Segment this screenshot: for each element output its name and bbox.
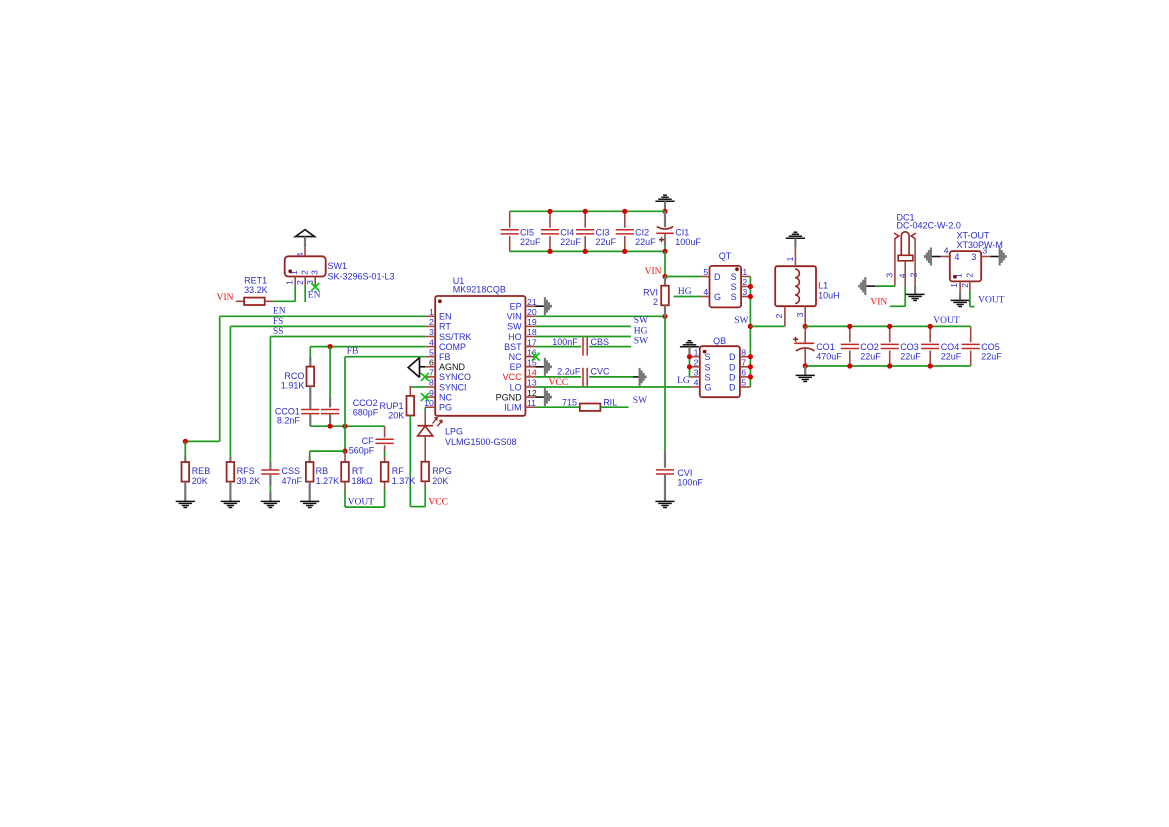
svg-text:CO2: CO2 <box>860 342 879 352</box>
svg-text:D: D <box>729 383 736 393</box>
wire VOUT top rail <box>805 325 971 327</box>
svg-text:RET1: RET1 <box>244 276 267 286</box>
svg-text:XT-OUT: XT-OUT <box>957 231 991 241</box>
net label VCC pin14 <box>549 378 569 388</box>
svg-text:3: 3 <box>971 252 976 262</box>
svg-text:EN: EN <box>439 312 452 322</box>
label VLMG1500-GS08 <box>445 437 517 447</box>
junction VIN node <box>662 274 667 279</box>
svg-text:39.2K: 39.2K <box>237 476 261 486</box>
svg-text:QB: QB <box>713 336 726 346</box>
label RB <box>316 466 340 486</box>
svg-text:4: 4 <box>295 252 305 257</box>
svg-text:2: 2 <box>429 317 434 327</box>
wire VOUT bottom rail <box>805 365 971 367</box>
svg-text:22uF: 22uF <box>635 237 656 247</box>
svg-text:SS/TRK: SS/TRK <box>439 332 472 342</box>
no-connect X pin16 <box>532 353 540 361</box>
svg-text:2: 2 <box>295 280 305 285</box>
svg-text:9: 9 <box>429 388 434 398</box>
label 680pF <box>353 408 379 418</box>
svg-text:17: 17 <box>527 337 537 347</box>
wire SW1 pin2 stub <box>304 286 306 302</box>
net label SW node <box>734 316 748 326</box>
svg-text:4: 4 <box>429 337 434 347</box>
svg-text:2: 2 <box>774 313 784 318</box>
svg-text:3: 3 <box>884 273 894 278</box>
svg-text:D: D <box>714 272 721 282</box>
svg-text:3: 3 <box>305 280 315 285</box>
resistor REB <box>182 462 190 501</box>
label 715 <box>562 398 577 408</box>
resistor RIL <box>580 404 601 411</box>
svg-text:2: 2 <box>965 273 975 278</box>
net label LG <box>677 376 690 386</box>
wire XT pin2 VOUT <box>970 291 975 306</box>
svg-text:NC: NC <box>509 352 522 362</box>
svg-text:22uF: 22uF <box>981 352 1002 362</box>
label RF <box>392 466 416 486</box>
svg-text:7: 7 <box>741 358 746 368</box>
svg-text:22uF: 22uF <box>941 352 962 362</box>
IC U1 MK9218CQB <box>424 296 537 416</box>
wire CVI bottom <box>664 474 666 501</box>
junction CI3 bottom <box>583 249 588 254</box>
net label VCC bottom <box>428 497 448 507</box>
wire XT pin4 to gnd arrow <box>932 256 941 258</box>
label RFS <box>237 466 261 486</box>
svg-text:4: 4 <box>898 273 908 278</box>
wire VCC bottom joint <box>410 491 425 507</box>
junction SW node <box>748 324 753 329</box>
junction QB pin7 <box>748 364 753 369</box>
svg-text:4: 4 <box>703 287 708 297</box>
svg-text:CVC: CVC <box>591 367 611 377</box>
label CBS <box>591 337 610 347</box>
svg-text:CO4: CO4 <box>941 342 960 352</box>
svg-text:S: S <box>705 372 711 382</box>
label CI3 <box>596 227 617 247</box>
ground arrow DC1 pin3 <box>859 277 865 295</box>
no-connect X pin9 <box>421 393 429 401</box>
capacitor CCO2 <box>321 410 339 427</box>
svg-text:SW1: SW1 <box>328 261 348 271</box>
capacitor CO3 <box>881 326 899 366</box>
label RIL <box>603 398 617 408</box>
label 10uH <box>818 290 840 300</box>
net label SW pin19 <box>634 316 648 326</box>
wire DC1 pin4 VIN <box>890 286 905 306</box>
svg-text:715: 715 <box>562 398 577 408</box>
svg-text:MK9218CQB: MK9218CQB <box>453 285 506 295</box>
label QT <box>719 251 732 261</box>
wire LO pin13 to QB <box>536 386 691 388</box>
label CO1 <box>816 342 842 362</box>
net label SS <box>273 327 284 337</box>
svg-text:S: S <box>705 362 711 372</box>
wire FB net <box>345 357 425 451</box>
wire HO pin18 <box>536 336 632 338</box>
svg-text:S: S <box>731 282 737 292</box>
net label EN at SW1 pin2 <box>308 290 321 300</box>
svg-text:RB: RB <box>316 466 329 476</box>
label CSS <box>282 466 303 486</box>
wire DC1 pin3 to gnd arrow <box>866 285 895 287</box>
junction cap bank gnd <box>662 209 667 214</box>
svg-text:SW: SW <box>507 322 522 332</box>
svg-text:15: 15 <box>527 358 537 368</box>
LED LPG <box>417 412 442 462</box>
resistor RUP1 <box>407 386 415 507</box>
label CVI <box>677 468 703 488</box>
capacitor CI4 <box>541 211 559 251</box>
label 20K value RPG <box>432 476 448 486</box>
svg-text:G: G <box>714 292 721 302</box>
capacitor CVC <box>583 368 587 386</box>
wire VCC pin14 right <box>589 376 639 378</box>
svg-text:VIN: VIN <box>217 293 234 303</box>
svg-text:SK-3296S-01-L3: SK-3296S-01-L3 <box>328 272 395 282</box>
svg-text:COMP: COMP <box>439 342 466 352</box>
svg-text:FS: FS <box>273 317 284 327</box>
label RT <box>352 466 374 486</box>
svg-text:CI2: CI2 <box>635 227 649 237</box>
svg-text:3: 3 <box>795 312 805 317</box>
capacitor CI3 <box>576 211 594 251</box>
resistor RCO <box>307 357 315 410</box>
label LPG <box>445 427 463 437</box>
svg-text:560pF: 560pF <box>349 445 375 455</box>
svg-text:470uF: 470uF <box>816 352 842 362</box>
net label VOUT XT <box>978 296 1005 306</box>
label U1 <box>453 276 465 286</box>
svg-text:21: 21 <box>527 297 537 307</box>
label XT30PW-M <box>957 240 1003 250</box>
svg-text:14: 14 <box>527 368 537 378</box>
svg-text:VIN: VIN <box>507 312 522 322</box>
svg-text:VOUT: VOUT <box>978 296 1005 306</box>
svg-text:NC: NC <box>439 392 452 402</box>
junction CCO2 top <box>328 344 333 349</box>
svg-text:FB: FB <box>347 346 359 356</box>
wire CO1 ground stub <box>804 366 806 375</box>
svg-text:REB: REB <box>192 466 211 476</box>
wire XT pin3 to gnd arrow <box>990 256 998 258</box>
svg-text:AGND: AGND <box>439 362 466 372</box>
capacitor CF <box>376 439 394 443</box>
wire comp bottom node <box>310 414 384 427</box>
svg-text:5: 5 <box>429 347 434 357</box>
junction CO4 top <box>928 324 933 329</box>
svg-text:SW: SW <box>634 336 648 346</box>
wire EN net <box>185 316 425 441</box>
junction CI4 top <box>547 209 552 214</box>
svg-text:18: 18 <box>527 327 537 337</box>
svg-text:19: 19 <box>527 317 537 327</box>
connector XT-OUT <box>941 245 991 291</box>
svg-text:22uF: 22uF <box>900 352 921 362</box>
junction CO2 bottom <box>847 363 852 368</box>
net label VIN DC1 <box>870 297 887 307</box>
svg-text:5: 5 <box>703 267 708 277</box>
label CI1 <box>675 227 701 247</box>
junction CO3 top <box>887 324 892 329</box>
svg-text:CI4: CI4 <box>560 227 574 237</box>
svg-text:EN: EN <box>308 290 321 300</box>
ground below RB <box>300 501 319 507</box>
svg-text:20: 20 <box>527 307 537 317</box>
svg-text:3: 3 <box>694 368 699 378</box>
svg-text:3: 3 <box>310 270 320 275</box>
svg-text:47nF: 47nF <box>282 476 303 486</box>
svg-text:RT: RT <box>439 322 451 332</box>
capacitor CVI <box>656 470 674 474</box>
wire QT source vertical <box>749 277 751 327</box>
wire VOUT bottom <box>345 482 385 508</box>
label RVI <box>643 288 658 307</box>
svg-text:CI5: CI5 <box>520 227 534 237</box>
label CVC <box>591 367 611 377</box>
label QB <box>713 336 726 346</box>
svg-text:2: 2 <box>299 270 309 275</box>
resistor RB <box>306 462 314 501</box>
wire BST pin17 left <box>536 346 582 348</box>
ground below CVI <box>655 501 674 507</box>
junction CI2 top <box>622 209 627 214</box>
svg-text:1: 1 <box>742 267 747 277</box>
label CI5 <box>520 227 541 247</box>
junction QB pin1 <box>687 354 692 359</box>
wire HG to QT pin4 <box>674 296 701 298</box>
svg-text:EP: EP <box>510 302 522 312</box>
svg-text:XT30PW-M: XT30PW-M <box>957 240 1003 250</box>
wire XT pin1 gnd stub <box>959 291 961 300</box>
label CO3 <box>900 342 921 362</box>
wire QB drain vertical <box>749 326 751 387</box>
svg-text:SS: SS <box>273 327 284 337</box>
svg-text:1.91K: 1.91K <box>281 381 305 391</box>
label CCO1 <box>275 406 300 416</box>
label 8.2nF <box>277 415 301 425</box>
no-connect X pin7 <box>421 373 429 381</box>
svg-text:8: 8 <box>429 378 434 388</box>
capacitor CO5 <box>962 326 980 366</box>
svg-text:LG: LG <box>677 376 690 386</box>
resistor RF <box>381 462 389 482</box>
label 33.2K <box>244 285 268 295</box>
net label VIN main <box>645 267 662 277</box>
svg-text:RF: RF <box>392 466 404 476</box>
svg-text:3: 3 <box>742 287 747 297</box>
wire QB source vertical <box>689 357 691 377</box>
junction QT pin3 <box>748 294 753 299</box>
wire CF top stub <box>384 426 386 437</box>
svg-text:22uF: 22uF <box>560 237 581 247</box>
svg-text:2.2uF: 2.2uF <box>557 367 581 377</box>
wire VCC pin14 left <box>536 376 582 378</box>
svg-text:VCC: VCC <box>428 497 448 507</box>
svg-text:5: 5 <box>741 378 746 388</box>
svg-text:1: 1 <box>954 273 964 278</box>
capacitor CI5 <box>501 211 519 251</box>
junction CO1 bottom <box>803 363 808 368</box>
net label SW pin11 <box>633 396 647 406</box>
wire DC1 pin2 gnd stub <box>914 286 916 294</box>
label CO2 <box>860 342 881 362</box>
svg-text:SW: SW <box>734 316 748 326</box>
label CF <box>362 436 374 446</box>
resistor RT <box>341 451 349 507</box>
svg-text:SW: SW <box>633 396 647 406</box>
switch SW1 <box>284 252 325 286</box>
wire REB stub <box>184 441 186 462</box>
svg-text:CI3: CI3 <box>596 227 610 237</box>
label SW1 <box>328 261 348 271</box>
label DC-042C-W-2.0 <box>897 221 961 231</box>
svg-text:ILIM: ILIM <box>504 403 522 413</box>
wire VIN column upper <box>664 251 666 276</box>
net label HG pin18 <box>634 326 648 336</box>
label CO5 <box>981 342 1002 362</box>
wire VIN pin20 <box>536 315 666 317</box>
svg-text:S: S <box>731 272 737 282</box>
svg-text:D: D <box>729 372 736 382</box>
svg-text:100nF: 100nF <box>552 337 578 347</box>
svg-text:VOUT: VOUT <box>933 316 960 326</box>
junction QB pin2 <box>687 364 692 369</box>
svg-text:G: G <box>705 383 712 393</box>
wire SW pin19 <box>536 325 632 327</box>
junction QT pin2 <box>748 284 753 289</box>
label 1.91K <box>281 381 305 391</box>
net label VIN at RET1 <box>217 293 234 303</box>
ground arrow pin15 EP <box>536 358 551 376</box>
no-connect X on SW1 pin3 <box>311 283 319 291</box>
svg-text:100uF: 100uF <box>675 237 701 247</box>
label CI2 <box>635 227 656 247</box>
svg-text:2: 2 <box>694 358 699 368</box>
ground below RFS <box>221 501 240 507</box>
net label FS <box>273 317 284 327</box>
svg-text:S: S <box>705 352 711 362</box>
ground arrow XT pin3 <box>1000 248 1006 266</box>
wire CCO2 top stub <box>329 347 331 408</box>
label REB <box>192 466 211 486</box>
wire VIN to QT pin5 <box>665 276 701 278</box>
net label VOUT bottom <box>348 498 375 508</box>
wire PG stub <box>424 407 426 412</box>
svg-text:18kΩ: 18kΩ <box>352 476 374 486</box>
junction CO2 top <box>847 324 852 329</box>
capacitor CO2 <box>841 326 859 366</box>
capacitor CCO1 <box>301 410 319 414</box>
power flag arrow (up) above SW1 <box>295 230 314 237</box>
junction CI2 bottom <box>622 249 627 254</box>
svg-text:7: 7 <box>429 368 434 378</box>
wire input cap bottom rail <box>510 250 665 252</box>
svg-text:PG: PG <box>439 403 452 413</box>
svg-text:D: D <box>729 362 736 372</box>
svg-text:1: 1 <box>284 280 294 285</box>
label RCO <box>284 371 304 381</box>
svg-text:CVI: CVI <box>677 468 692 478</box>
wire input cap top rail <box>510 210 665 212</box>
AGND ground triangle pin6 <box>408 358 425 378</box>
label MK9218CQB <box>453 285 506 295</box>
svg-text:2: 2 <box>909 272 919 277</box>
svg-text:PGND: PGND <box>496 392 523 402</box>
wire SYNCI net <box>410 386 425 388</box>
wire ILIM pin11 left <box>536 406 580 408</box>
ground above QB <box>680 341 699 357</box>
resistor RFS <box>227 462 235 501</box>
junction at REB top <box>183 439 188 444</box>
wire SS net <box>270 337 425 468</box>
svg-text:1.27K: 1.27K <box>316 476 340 486</box>
connector DC1 <box>884 232 918 286</box>
ground arrow pin12 PGND <box>536 388 551 406</box>
svg-text:RFS: RFS <box>237 466 255 476</box>
resistor RPG <box>421 462 429 491</box>
net label EN <box>273 307 286 317</box>
junction CI4 bottom <box>547 249 552 254</box>
svg-text:680pF: 680pF <box>353 408 379 418</box>
net label VOUT rail <box>933 316 960 326</box>
svg-text:BST: BST <box>504 342 522 352</box>
label CCO2 <box>353 398 378 408</box>
capacitor CI2 <box>616 211 634 251</box>
svg-text:20K: 20K <box>432 476 448 486</box>
svg-text:6: 6 <box>429 358 434 368</box>
svg-text:3: 3 <box>982 245 987 255</box>
net label HG at QT <box>678 287 692 297</box>
svg-text:CO5: CO5 <box>981 342 1000 352</box>
svg-text:CI1: CI1 <box>675 227 689 237</box>
svg-text:CSS: CSS <box>282 466 301 476</box>
svg-text:8.2nF: 8.2nF <box>277 415 301 425</box>
junction FB-RB node <box>342 449 347 454</box>
resistor RET1 <box>236 298 274 305</box>
wire FS net <box>230 326 425 462</box>
svg-text:QT: QT <box>719 251 732 261</box>
svg-text:SYNCI: SYNCI <box>439 382 467 392</box>
label SK-3296S-01-L3 <box>328 272 395 282</box>
svg-text:20K: 20K <box>192 476 208 486</box>
capacitor CBS <box>583 338 587 356</box>
svg-text:DC-042C-W-2.0: DC-042C-W-2.0 <box>897 221 961 231</box>
svg-text:1.37K: 1.37K <box>392 476 416 486</box>
svg-text:VIN: VIN <box>645 267 662 277</box>
ground arrow CVC <box>640 368 646 386</box>
ground below CSS <box>261 501 280 507</box>
svg-text:VIN: VIN <box>870 297 887 307</box>
svg-text:3: 3 <box>429 327 434 337</box>
label RET1 <box>244 276 267 286</box>
wire ILIM pin11 right <box>600 406 628 408</box>
svg-text:1: 1 <box>694 347 699 357</box>
svg-text:2: 2 <box>653 297 658 307</box>
svg-text:CO3: CO3 <box>900 342 919 352</box>
svg-text:10uH: 10uH <box>818 290 840 300</box>
svg-text:VCC: VCC <box>503 372 523 382</box>
svg-text:22uF: 22uF <box>596 237 617 247</box>
inductor L1 <box>774 247 816 326</box>
ground below CO1 <box>796 375 815 381</box>
svg-text:CO1: CO1 <box>816 342 835 352</box>
svg-text:SW: SW <box>634 316 648 326</box>
svg-text:HG: HG <box>634 326 648 336</box>
svg-text:VOUT: VOUT <box>348 498 375 508</box>
